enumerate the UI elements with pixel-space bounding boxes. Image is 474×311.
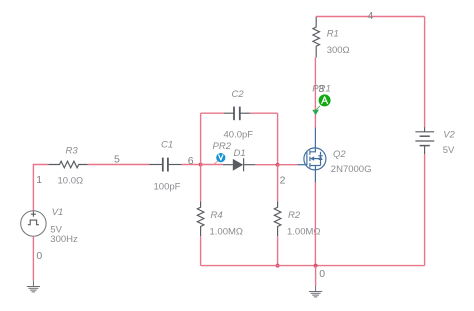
battery V2 [415,127,434,154]
svg-text:1: 1 [36,174,42,186]
wire: C2 branch left vertical [200,113,202,164]
svg-text:R3: R3 [66,146,79,157]
wire: R3 to C1 [88,164,150,166]
svg-text:C2: C2 [232,89,245,100]
wire: node 6 to D1 [201,164,223,166]
wire: C2 branch right vertical [277,113,279,164]
svg-text:1.00MΩ: 1.00MΩ [210,227,244,238]
diode D1 [223,158,256,171]
drain lead [314,128,316,148]
wire: R2 bottom to rail [277,236,279,265]
resistor R4 [197,202,204,237]
svg-text:0: 0 [319,268,325,280]
svg-text:R4: R4 [211,210,223,221]
svg-text:300Hz: 300Hz [50,234,78,245]
wire: C1 to node 6 [182,164,201,166]
junction node 6 [199,163,203,167]
resistor R1 [313,17,320,58]
svg-text:2: 2 [280,174,286,186]
svg-text:100pF: 100pF [154,181,181,192]
ground main [309,286,322,297]
wire: C2 top right horizontal [250,112,278,114]
wire: Q2 source to rail [314,183,316,266]
wire: R2 branch down from node 2 [277,165,279,202]
svg-text:5V: 5V [443,145,455,156]
svg-text:R1: R1 [327,28,339,39]
resistor R2 [274,202,281,237]
svg-text:10.0Ω: 10.0Ω [58,176,84,187]
svg-text:0: 0 [36,250,42,262]
wire: C2 top left horizontal [201,112,224,114]
capacitor C2 [224,107,250,121]
capacitor C1 [149,158,182,172]
source V1 [21,211,46,236]
transistor Q2 [298,128,326,183]
wire: bottom rail [201,265,425,267]
svg-text:2N7000G: 2N7000G [331,164,372,175]
probe PR2 [213,153,225,165]
svg-text:3: 3 [318,83,324,95]
svg-text:6: 6 [188,155,194,167]
source lead [314,170,316,183]
svg-text:R2: R2 [288,210,301,221]
junction R2 rail [276,264,280,268]
junction node 0 [314,264,318,268]
wire: V1 bottom [32,236,34,280]
wire: R1 bottom to Q2 drain [314,58,316,128]
svg-text:300Ω: 300Ω [327,45,350,56]
wire: R4 bottom to rail [200,236,202,265]
wire: V2 top vertical [424,17,426,128]
wire: V1 top to corner to R3 [33,165,48,212]
wire: R4 branch down from node 6 [200,165,202,202]
wire: top rail [316,16,424,18]
wire: V2 bottom vertical [424,154,426,266]
svg-text:V1: V1 [52,207,64,218]
wire: to ground [315,266,317,286]
probe PR1 [316,94,331,110]
wire: D1 to node 2 [255,164,277,166]
svg-text:Q2: Q2 [333,149,346,160]
svg-text:V2: V2 [443,129,455,140]
svg-text:5: 5 [114,154,120,166]
ground V1 [27,280,40,292]
wire: node 2 to Q2 gate [278,164,298,166]
current arrow [312,110,319,116]
svg-text:PR2: PR2 [213,141,232,152]
svg-text:D1: D1 [234,148,246,159]
svg-text:40.0pF: 40.0pF [224,129,254,140]
resistor R3 [49,161,88,168]
svg-text:4: 4 [368,10,374,22]
junction node 2 [276,163,280,167]
svg-text:C1: C1 [161,140,173,151]
